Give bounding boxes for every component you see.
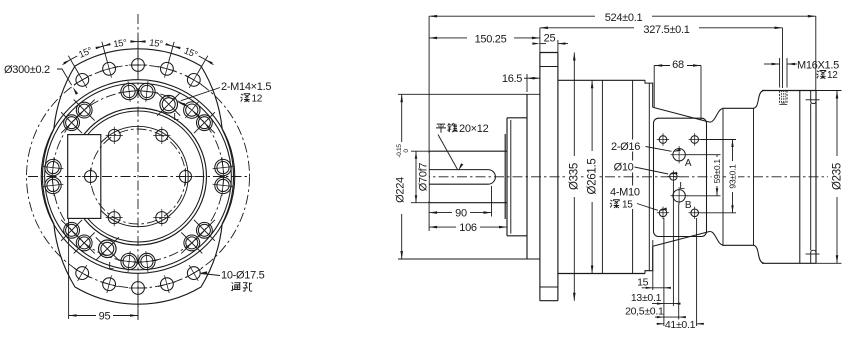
dim 90 ext <box>491 186 493 217</box>
left view: flange outline <box>42 49 233 304</box>
spigot face <box>526 94 528 259</box>
rear cylinder top edge dia235 <box>762 90 816 92</box>
svg-text:Ø235: Ø235 <box>831 163 843 190</box>
threaded hole pair r85.5 at 84deg <box>137 81 158 102</box>
flange bottom edge <box>540 300 558 302</box>
hole dia17.5 at 270deg <box>129 279 147 297</box>
spigot circle outer <box>70 108 207 245</box>
dim 90 line <box>429 212 491 214</box>
dim dia70f7 text <box>418 153 429 201</box>
svg-text:15: 15 <box>622 200 633 211</box>
spigot circle inner <box>73 111 204 242</box>
threaded hole pair r85.5 at 186deg <box>43 175 64 196</box>
svg-text:L: L <box>679 181 685 192</box>
key rectangle <box>68 135 101 219</box>
flange face <box>539 53 541 301</box>
hole dia17.5 at 60deg <box>186 72 202 88</box>
cone top slant <box>653 107 723 122</box>
cross hole r85.5 at 321deg <box>194 220 215 241</box>
10-dia17.5 leader <box>201 274 220 276</box>
flange face extension up <box>539 28 541 53</box>
flange bolt pitch line top <box>540 66 558 68</box>
dim 20.5 line <box>655 316 686 318</box>
flange back <box>557 53 559 301</box>
snap ring groove bottom <box>811 250 816 263</box>
dim 41 line <box>657 323 664 325</box>
label 4-M10 <box>609 186 648 198</box>
body bottom edge <box>558 273 645 275</box>
neck face line <box>722 108 724 245</box>
inner hole r47.5 at 120deg <box>106 127 123 144</box>
dim dia261.5 text <box>586 151 599 202</box>
groove tick top <box>806 99 820 101</box>
dim 93 ext ticks <box>701 139 737 141</box>
body end step top <box>645 80 653 107</box>
neck flat top <box>723 107 754 109</box>
hole dia17.5 at 300deg <box>186 265 202 281</box>
svg-text:4-M10: 4-M10 <box>610 187 640 199</box>
inner hole r47.5 at 0deg <box>177 168 194 185</box>
dim 95 text <box>96 310 113 321</box>
main centerline right view <box>420 176 828 178</box>
threaded hole pair r85.5 at 174deg <box>43 157 64 178</box>
body end step bottom <box>645 247 653 274</box>
hole 4-M10 at 663,139.5 <box>657 133 669 145</box>
leader 2-dia16 <box>646 147 672 152</box>
threaded hole pair r85.5 at 96deg <box>119 81 140 102</box>
body seam 2 <box>632 80 634 273</box>
dim 106 text <box>456 222 480 233</box>
svg-text:Ø10: Ø10 <box>614 162 634 174</box>
dim 150.25 text <box>467 32 514 44</box>
bolt circle dia300 pitch <box>27 65 250 288</box>
threaded hole pair r85.5 at 264deg <box>119 251 140 272</box>
M16 tapped hole hidden lines <box>780 91 787 105</box>
svg-text:524±0.1: 524±0.1 <box>605 12 643 24</box>
15deg dim radial extension lines <box>68 37 208 73</box>
svg-text:16.5: 16.5 <box>502 73 522 85</box>
svg-text:12: 12 <box>252 94 263 105</box>
boss circle OD 261.5 <box>41 80 235 274</box>
boss top edge <box>507 117 527 119</box>
body seam 1 <box>601 80 603 273</box>
dim 95 line <box>69 315 138 317</box>
keyway label pingjian20x12 <box>436 124 446 133</box>
svg-text:12: 12 <box>827 70 838 81</box>
flange top edge <box>540 52 558 54</box>
dim 327.5 extension right <box>782 28 784 88</box>
svg-text:L: L <box>173 112 179 123</box>
2-M14 leader <box>181 88 220 101</box>
svg-text:20×12: 20×12 <box>459 123 489 135</box>
rear panel with rounded corners <box>654 118 707 236</box>
dim dia224 text <box>397 142 410 214</box>
inner hole r47.5 at 180deg <box>82 168 99 185</box>
svg-text:2-Ø16: 2-Ø16 <box>611 141 640 153</box>
threaded hole pair r85.5 at -6deg <box>213 175 234 196</box>
svg-text:150.25: 150.25 <box>475 33 507 45</box>
body end rim line <box>648 83 650 271</box>
boss face second edge <box>504 134 506 219</box>
step2 S-curve bottom <box>754 245 765 263</box>
svg-text:13±0.1: 13±0.1 <box>631 292 662 304</box>
horizontal centerline <box>28 176 250 178</box>
vertical centerline <box>137 14 139 320</box>
dim dia261.5 line <box>591 80 593 273</box>
spigot bottom edge + dim224 extension <box>398 258 540 260</box>
bottom dims extension lines <box>652 240 654 290</box>
dim 13 line <box>652 303 681 305</box>
hole 4-M10 at 694.7,139.5 <box>689 133 701 145</box>
dim 93 line <box>732 140 734 213</box>
hole dia17.5 at 75deg <box>158 60 176 78</box>
svg-text:10-Ø17.5: 10-Ø17.5 <box>221 270 265 282</box>
dim 59 line <box>716 155 718 196</box>
callout M16X1.5 <box>779 58 781 88</box>
hole A dia16 <box>671 146 688 163</box>
boss face <box>506 118 508 236</box>
svg-text:95: 95 <box>99 311 111 323</box>
svg-text:41±0.1: 41±0.1 <box>665 319 696 331</box>
dim 16.5 ext spigot face up <box>526 74 528 92</box>
inner hole r47.5 at 240deg <box>106 209 123 226</box>
step2 face line <box>753 108 755 245</box>
svg-text:25: 25 <box>544 33 556 45</box>
dim 95 extension left <box>68 219 70 319</box>
boss bottom edge <box>507 235 527 237</box>
flange bolt pitch line bottom <box>540 286 558 288</box>
leader 4-M10 <box>637 204 658 211</box>
hole 4-M10 at 694.7,212.8 <box>689 207 701 219</box>
svg-text:20,5±0.1: 20,5±0.1 <box>625 305 664 317</box>
svg-text:15°: 15° <box>149 38 164 51</box>
dim dia70f7 ext top <box>411 150 429 152</box>
dim 25 ext up <box>557 40 559 53</box>
inner hole r47.5 at 300deg <box>153 209 170 226</box>
dia235 extension top <box>816 90 842 92</box>
shaft outline <box>429 151 507 203</box>
dim 59 ext ticks <box>687 154 721 156</box>
hole B dia16 <box>671 187 688 204</box>
dim dia335 text <box>568 156 581 197</box>
svg-text:68: 68 <box>672 59 684 71</box>
dim 25 line+arrows outside <box>540 43 546 45</box>
15deg dim arc <box>63 42 214 65</box>
pitch circle r47.5 <box>91 129 186 224</box>
svg-text:327.5±0.1: 327.5±0.1 <box>643 24 689 36</box>
dim 150.25 line <box>429 37 540 39</box>
hole dia17.5 at 120deg <box>74 72 90 88</box>
dim dia70f7 ext bottom <box>411 202 429 204</box>
bore circle <box>88 126 188 226</box>
hole dia17.5 at 285deg <box>158 275 176 293</box>
svg-text:-0.15: -0.15 <box>396 144 403 158</box>
svg-text:59±0.1: 59±0.1 <box>712 159 722 184</box>
spigot top edge + dim224 extension <box>398 93 540 95</box>
svg-text:Ø261.5: Ø261.5 <box>586 159 598 195</box>
svg-text:93±0.1: 93±0.1 <box>728 164 738 189</box>
neck flat bottom <box>723 244 754 246</box>
svg-text:15: 15 <box>637 276 649 288</box>
dim dia224 line <box>401 94 403 259</box>
keyway leader <box>438 135 458 170</box>
dim dia335 line <box>573 53 575 301</box>
dim dia235 line <box>836 91 838 264</box>
label 2-dia16 <box>609 140 647 152</box>
hole 2-M14 at 67deg <box>157 93 180 116</box>
svg-text:Ø70f7: Ø70f7 <box>418 163 430 192</box>
label dia10 <box>612 161 635 173</box>
dim 524 extension left(shaft face) incl <box>428 16 430 151</box>
svg-text:15°: 15° <box>113 38 128 51</box>
dim 59 text <box>712 157 723 186</box>
15deg dim arrowheads <box>206 60 213 65</box>
svg-text:A: A <box>685 158 692 169</box>
svg-text:Ø300±0.2: Ø300±0.2 <box>4 64 50 76</box>
dim 327.5 line <box>540 27 783 29</box>
rear end face <box>815 91 817 264</box>
cross hole r85.5 at 231deg <box>74 232 95 253</box>
svg-text:106: 106 <box>459 222 477 234</box>
threaded hole pair r85.5 at 276deg <box>137 251 158 272</box>
dim 68 ext right <box>700 66 702 121</box>
dim 106 line <box>429 226 507 228</box>
threaded hole pair r85.5 at 6deg <box>213 157 234 178</box>
snap ring groove top <box>811 91 816 104</box>
dim 524 line <box>429 15 816 17</box>
dim 15 line <box>642 287 671 289</box>
hole L dia10 <box>667 171 679 183</box>
leader dia10 <box>635 167 669 174</box>
dim 95 extension right <box>137 292 139 319</box>
label shen12 <box>241 94 250 102</box>
hole dia17.5 at 90deg <box>129 56 147 74</box>
groove tick bottom <box>806 253 820 255</box>
dim dia70f7 line <box>415 151 417 203</box>
cross hole r85.5 at 141deg <box>61 112 82 133</box>
dim 16.5 line <box>524 77 540 79</box>
label shen15 <box>609 197 636 209</box>
boss circle inner edge <box>45 83 232 270</box>
hole dia17.5 at 240deg <box>74 265 90 281</box>
svg-text:L: L <box>108 261 114 272</box>
dim 90 text <box>452 207 470 218</box>
dim 68 text <box>670 59 687 70</box>
rear joint line <box>799 91 801 264</box>
boss face chamfer line <box>510 120 512 234</box>
svg-text:B: B <box>685 200 692 211</box>
dim 524 text <box>595 11 652 23</box>
hole dia17.5 at 105deg <box>100 60 118 78</box>
15deg labels <box>178 44 200 61</box>
cross hole r85.5 at 129deg <box>74 100 95 121</box>
rear cap inner line <box>810 104 812 251</box>
svg-text:2-M14×1.5: 2-M14×1.5 <box>221 81 271 93</box>
cone bottom slant <box>653 232 723 247</box>
threaded hole pair r85.5 at 51deg <box>184 102 200 118</box>
dim 327.5 text <box>634 22 699 34</box>
dia235 extension bottom <box>816 262 842 264</box>
rear cylinder bottom edge <box>762 262 816 264</box>
dia300 leader <box>57 69 72 85</box>
hole 4-M10 at 663,212.8 <box>657 207 669 219</box>
dim 524 extension right <box>815 16 817 90</box>
svg-text:Ø335: Ø335 <box>569 163 581 190</box>
cross hole r85.5 at 39deg <box>194 112 215 133</box>
body top edge <box>558 79 645 81</box>
hole 2-M14 at 247deg <box>96 237 119 260</box>
dim 68 line <box>654 65 701 67</box>
hole dia17.5 at 255deg <box>100 275 118 293</box>
svg-text:90: 90 <box>455 208 467 220</box>
label tongkong <box>231 283 240 292</box>
cross hole r85.5 at 309deg <box>181 232 202 253</box>
dim dia235 text <box>831 156 844 197</box>
keyway slot <box>429 170 495 185</box>
cross hole r85.5 at 219deg <box>61 220 82 241</box>
svg-text:Ø224: Ø224 <box>395 177 407 203</box>
dim 68 ext left <box>653 66 655 109</box>
step2 S-curve top <box>754 91 765 109</box>
inner hole r47.5 at 60deg <box>153 127 170 144</box>
pitch circle r85.5 <box>53 91 224 262</box>
dim 93 text <box>727 161 738 192</box>
